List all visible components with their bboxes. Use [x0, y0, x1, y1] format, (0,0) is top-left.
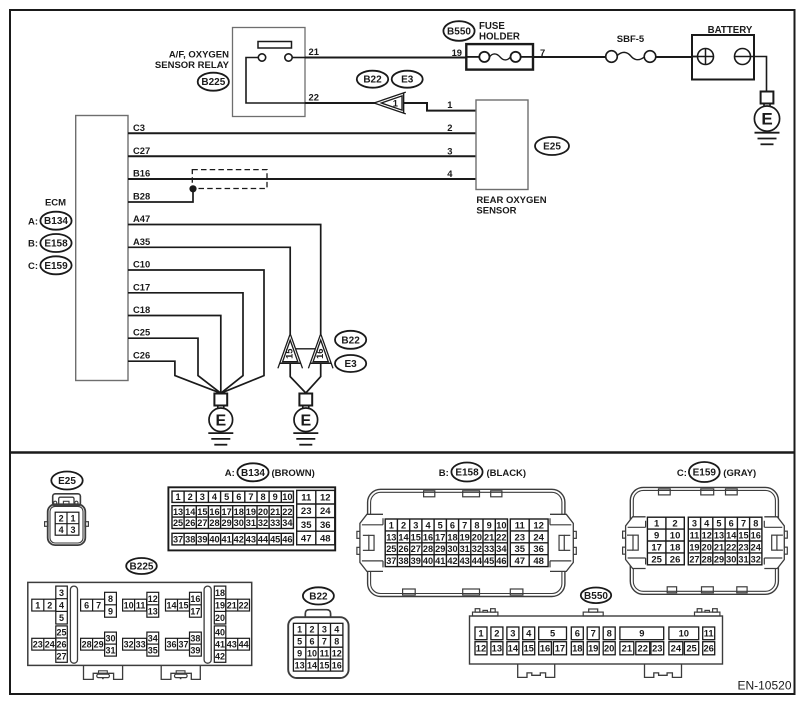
- svg-text:15: 15: [319, 661, 329, 671]
- fuse SBF-5: [606, 51, 656, 63]
- svg-text:A:: A:: [28, 216, 38, 227]
- svg-text:3: 3: [70, 525, 75, 535]
- svg-text:4: 4: [59, 600, 64, 610]
- B225 divider bar 2: [204, 586, 211, 663]
- svg-text:16: 16: [190, 594, 200, 604]
- svg-text:46: 46: [282, 535, 292, 545]
- svg-text:2: 2: [59, 513, 64, 523]
- svg-text:32: 32: [751, 554, 761, 564]
- svg-text:A/F, OXYGEN: A/F, OXYGEN: [169, 50, 229, 61]
- svg-text:19: 19: [452, 47, 462, 58]
- wire B16: ECM to rear oxygen sensor: [128, 178, 476, 180]
- svg-text:8: 8: [334, 637, 339, 647]
- svg-text:E158: E158: [44, 239, 68, 250]
- svg-text:C27: C27: [133, 145, 150, 156]
- svg-text:1: 1: [393, 98, 398, 109]
- svg-text:1: 1: [70, 513, 75, 523]
- svg-text:E159: E159: [693, 468, 717, 479]
- svg-text:1: 1: [478, 628, 483, 639]
- svg-text:24: 24: [751, 542, 762, 552]
- svg-text:E158: E158: [455, 468, 479, 479]
- B225 pins 10-11: [123, 599, 147, 611]
- wire A47: ECM to triangle 16: [128, 225, 321, 335]
- connector B225 body: [28, 582, 252, 665]
- svg-text:26: 26: [185, 518, 195, 528]
- wire C18: ECM to ground: [128, 316, 221, 394]
- svg-text:6: 6: [729, 519, 734, 529]
- shield junction dot: [189, 185, 196, 192]
- svg-text:14: 14: [508, 643, 519, 654]
- B225 pins 21-22: [226, 599, 250, 611]
- svg-text:43: 43: [460, 556, 470, 566]
- svg-text:13: 13: [173, 507, 183, 517]
- B225 pins 3-5 strip: [56, 586, 68, 624]
- svg-text:B16: B16: [133, 168, 150, 179]
- svg-text:27: 27: [197, 518, 207, 528]
- fuse holder B550: [466, 44, 533, 70]
- connector oval E159 (bottom): [689, 462, 720, 482]
- svg-text:28: 28: [82, 640, 92, 650]
- svg-text:36: 36: [166, 640, 176, 650]
- svg-text:34: 34: [496, 544, 507, 554]
- svg-text:21: 21: [622, 643, 632, 654]
- svg-text:11: 11: [690, 530, 700, 540]
- B225 pins 38-39 strip: [190, 632, 202, 656]
- wire C26: ECM to ground: [128, 361, 221, 393]
- B134 pin rows 13-22 / 25-34: [172, 506, 293, 529]
- svg-text:3: 3: [413, 520, 418, 530]
- connector triangle 16 (B22-E3): [308, 334, 333, 369]
- B225 mounting bracket 2: [161, 665, 200, 679]
- svg-text:24: 24: [45, 640, 55, 650]
- svg-text:25: 25: [173, 518, 183, 528]
- svg-text:13: 13: [492, 643, 502, 654]
- svg-text:35: 35: [301, 520, 312, 531]
- svg-text:25: 25: [651, 554, 662, 565]
- svg-text:B225: B225: [201, 77, 225, 88]
- svg-text:13: 13: [386, 532, 396, 542]
- svg-text:18: 18: [234, 507, 244, 517]
- svg-text:FUSE: FUSE: [479, 21, 505, 32]
- svg-text:8: 8: [607, 628, 612, 639]
- svg-text:E25: E25: [543, 142, 561, 153]
- svg-text:45: 45: [484, 556, 494, 566]
- svg-text:16: 16: [209, 507, 219, 517]
- connector oval B22 (bottom): [303, 587, 334, 604]
- svg-text:8: 8: [474, 520, 479, 530]
- connector triangle 15 (B22-E3): [278, 334, 303, 369]
- svg-text:6: 6: [84, 601, 89, 611]
- svg-text:7: 7: [741, 519, 746, 529]
- svg-text:10: 10: [282, 492, 292, 502]
- svg-text:40: 40: [215, 627, 225, 637]
- svg-text:22: 22: [239, 601, 249, 611]
- svg-text:5: 5: [550, 628, 555, 639]
- wire C27: ECM to rear oxygen sensor: [128, 155, 476, 157]
- B134 pin row 1-10: [172, 491, 293, 502]
- svg-text:15: 15: [197, 507, 207, 517]
- svg-text:43: 43: [246, 535, 256, 545]
- svg-text:13: 13: [714, 530, 724, 540]
- svg-text:18: 18: [572, 643, 582, 654]
- svg-text:B28: B28: [133, 191, 150, 202]
- svg-text:2: 2: [672, 519, 677, 530]
- svg-text:E: E: [215, 413, 226, 430]
- svg-text:C:: C:: [677, 468, 687, 479]
- svg-text:9: 9: [487, 520, 492, 530]
- svg-text:A:: A:: [225, 468, 235, 479]
- svg-text:9: 9: [297, 649, 302, 659]
- svg-text:2: 2: [401, 520, 406, 530]
- B225 mounting bracket 1: [84, 665, 123, 679]
- svg-text:SENSOR RELAY: SENSOR RELAY: [155, 60, 230, 71]
- ground E (oxygen sensor heater): [293, 394, 318, 445]
- svg-text:6: 6: [575, 628, 580, 639]
- svg-text:8: 8: [108, 594, 113, 604]
- connector B22 body: [288, 610, 348, 678]
- connector E158 body: [368, 489, 565, 596]
- svg-text:16: 16: [315, 349, 325, 359]
- svg-text:14: 14: [398, 532, 409, 542]
- wire: triangle 16 to ground: [306, 363, 321, 393]
- wire: battery to ground E: [751, 57, 767, 92]
- svg-text:16: 16: [751, 530, 761, 540]
- svg-text:11: 11: [320, 649, 330, 659]
- svg-text:22: 22: [496, 532, 506, 542]
- svg-text:26: 26: [398, 544, 408, 554]
- svg-text:14: 14: [307, 661, 317, 671]
- svg-text:4: 4: [334, 625, 339, 635]
- B225 divider bar 1: [70, 586, 77, 663]
- svg-text:40: 40: [423, 556, 433, 566]
- svg-text:25: 25: [386, 544, 396, 554]
- svg-text:12: 12: [702, 530, 712, 540]
- svg-text:19: 19: [246, 507, 256, 517]
- B134 pin row 37-46: [172, 533, 293, 545]
- svg-text:24: 24: [320, 506, 331, 517]
- svg-text:44: 44: [258, 535, 269, 545]
- svg-text:10: 10: [670, 530, 681, 541]
- svg-text:C26: C26: [133, 350, 150, 361]
- svg-text:2: 2: [447, 122, 452, 133]
- svg-text:27: 27: [689, 554, 699, 564]
- svg-text:2: 2: [47, 601, 52, 611]
- svg-text:B225: B225: [130, 562, 154, 573]
- svg-text:22: 22: [309, 92, 319, 103]
- svg-text:HOLDER: HOLDER: [479, 32, 520, 43]
- svg-text:18: 18: [447, 532, 457, 542]
- svg-text:20: 20: [604, 643, 614, 654]
- svg-text:19: 19: [588, 643, 598, 654]
- svg-text:3: 3: [447, 145, 452, 156]
- B134 pin block 11-48 right: [297, 490, 335, 544]
- svg-text:14: 14: [726, 530, 737, 540]
- svg-text:4: 4: [59, 525, 64, 535]
- svg-text:B550: B550: [584, 591, 608, 602]
- svg-text:B22: B22: [363, 75, 382, 86]
- svg-text:16: 16: [423, 532, 433, 542]
- connector oval E158 (bottom): [451, 463, 482, 482]
- relay B225 (A/F, Oxygen Sensor Relay): [233, 28, 306, 117]
- svg-text:25: 25: [57, 627, 67, 637]
- B225 pins 36-37: [166, 638, 190, 650]
- svg-text:1: 1: [654, 519, 660, 530]
- svg-text:30: 30: [447, 544, 457, 554]
- svg-text:10: 10: [124, 601, 134, 611]
- connector oval B134 (ECM A): [40, 212, 71, 230]
- svg-text:41: 41: [222, 535, 232, 545]
- svg-text:16: 16: [540, 643, 550, 654]
- svg-text:13: 13: [295, 661, 305, 671]
- svg-text:7: 7: [96, 601, 101, 611]
- svg-text:C17: C17: [133, 281, 150, 292]
- B225 pins 28-29: [81, 638, 105, 650]
- connector B550 body: [470, 616, 723, 664]
- label REAR OXYGEN SENSOR: [476, 195, 546, 217]
- svg-text:42: 42: [215, 652, 225, 662]
- label A/F, OXYGEN SENSOR RELAY: [155, 50, 230, 72]
- svg-text:6: 6: [309, 637, 314, 647]
- svg-text:43: 43: [227, 640, 237, 650]
- svg-text:12: 12: [533, 520, 544, 531]
- svg-text:E25: E25: [58, 476, 76, 487]
- B22 pin grid 1-16: [293, 623, 343, 671]
- svg-text:34: 34: [148, 634, 158, 644]
- svg-text:E: E: [300, 413, 311, 430]
- svg-text:9: 9: [108, 606, 113, 616]
- E159 left lock bracket: [623, 517, 646, 569]
- svg-text:28: 28: [209, 518, 219, 528]
- svg-text:C:: C:: [28, 261, 38, 272]
- svg-text:46: 46: [496, 556, 506, 566]
- svg-text:28: 28: [702, 554, 712, 564]
- svg-text:23: 23: [301, 506, 312, 517]
- wire C25: ECM to ground: [128, 338, 221, 393]
- ground E (battery): [754, 92, 779, 145]
- svg-text:33: 33: [136, 640, 146, 650]
- svg-text:A35: A35: [133, 236, 150, 247]
- svg-text:E159: E159: [44, 261, 68, 272]
- svg-text:2: 2: [188, 492, 193, 502]
- E158 pin block 11-48: [510, 519, 548, 567]
- svg-text:14: 14: [185, 507, 196, 517]
- svg-text:10: 10: [496, 520, 506, 530]
- svg-text:20: 20: [702, 542, 712, 552]
- svg-text:37: 37: [173, 535, 183, 545]
- svg-text:E: E: [761, 109, 772, 128]
- B550 pin row bottom 12-26: [475, 642, 715, 655]
- svg-text:35: 35: [514, 544, 525, 555]
- svg-text:16: 16: [332, 661, 342, 671]
- B225 pins 32-33: [123, 638, 147, 650]
- E158 pin block 1-46: [385, 519, 507, 567]
- svg-text:3: 3: [692, 519, 697, 529]
- wire: fuse holder pin 7 to SBF-5: [534, 56, 607, 58]
- B225 pins 8-9 strip: [105, 592, 117, 617]
- svg-text:37: 37: [386, 556, 396, 566]
- svg-text:22: 22: [282, 507, 292, 517]
- svg-text:32: 32: [124, 640, 134, 650]
- wire C17: ECM to ground: [128, 293, 243, 393]
- svg-text:8: 8: [260, 492, 265, 502]
- svg-text:31: 31: [738, 554, 748, 564]
- svg-text:3: 3: [59, 588, 64, 598]
- wire: SBF-5 to battery: [656, 56, 692, 58]
- svg-text:7: 7: [591, 628, 596, 639]
- svg-text:1: 1: [447, 99, 452, 110]
- svg-text:2: 2: [309, 625, 314, 635]
- svg-text:20: 20: [258, 507, 268, 517]
- B550 mounting bracket 1: [518, 664, 555, 677]
- svg-text:7: 7: [248, 492, 253, 502]
- svg-text:B:: B:: [439, 468, 449, 479]
- svg-text:26: 26: [703, 643, 713, 654]
- connector oval E3 (mid): [335, 355, 366, 372]
- svg-text:B550: B550: [447, 27, 471, 38]
- connector oval E25 (bottom): [51, 472, 82, 490]
- connector triangle 1 (B22-E3): [374, 92, 406, 114]
- svg-text:34: 34: [282, 518, 293, 528]
- svg-text:11: 11: [704, 628, 714, 639]
- svg-text:29: 29: [435, 544, 445, 554]
- svg-text:11: 11: [136, 601, 146, 611]
- svg-text:9: 9: [273, 492, 278, 502]
- svg-text:22: 22: [638, 643, 648, 654]
- svg-text:E3: E3: [401, 75, 414, 86]
- svg-text:42: 42: [234, 535, 244, 545]
- B225 pins 40-42 strip: [214, 626, 226, 662]
- svg-text:15: 15: [284, 349, 294, 359]
- svg-text:13: 13: [148, 606, 158, 616]
- svg-text:27: 27: [57, 652, 67, 662]
- svg-text:B134: B134: [241, 468, 265, 479]
- svg-text:5: 5: [59, 613, 64, 623]
- connector oval E3 (top): [392, 71, 423, 88]
- E159 pin block 1-26: [647, 517, 684, 565]
- svg-text:29: 29: [714, 554, 724, 564]
- rear oxygen sensor box: [476, 100, 528, 190]
- connector oval B550 (bottom): [581, 588, 611, 604]
- svg-text:47: 47: [301, 533, 312, 544]
- svg-text:15: 15: [738, 530, 748, 540]
- svg-text:21: 21: [309, 46, 319, 57]
- shield dashed box around B16 wire: [192, 170, 267, 189]
- svg-text:B:: B:: [28, 239, 38, 250]
- svg-text:9: 9: [639, 628, 644, 639]
- svg-text:35: 35: [148, 646, 158, 656]
- svg-text:48: 48: [533, 556, 544, 567]
- svg-text:41: 41: [435, 556, 445, 566]
- B225 pins 23-24: [32, 638, 56, 650]
- E25 pin grid (2 1 / 4 3): [55, 512, 79, 535]
- connector oval E158 (ECM B): [40, 234, 71, 252]
- svg-text:30: 30: [726, 554, 736, 564]
- svg-text:15: 15: [523, 643, 533, 654]
- svg-text:C25: C25: [133, 327, 150, 338]
- B550 top tab middle: [583, 609, 603, 616]
- svg-text:17: 17: [651, 542, 662, 553]
- svg-text:C18: C18: [133, 304, 150, 315]
- svg-text:12: 12: [148, 594, 158, 604]
- svg-text:A47: A47: [133, 213, 150, 224]
- B225 pins 14-15: [166, 599, 190, 611]
- connector B134 body: [168, 487, 335, 550]
- svg-text:SBF-5: SBF-5: [617, 34, 645, 45]
- E158 right lock bracket: [550, 514, 576, 571]
- connector oval B134 (bottom): [237, 463, 268, 481]
- B225 pins 34-35 strip: [147, 632, 159, 656]
- wire C3: ECM to rear oxygen sensor: [128, 132, 476, 134]
- svg-text:3: 3: [322, 625, 327, 635]
- B225 pins 30-31 strip: [105, 632, 117, 656]
- svg-text:26: 26: [57, 639, 67, 649]
- svg-text:4: 4: [526, 628, 532, 639]
- svg-text:17: 17: [555, 643, 565, 654]
- B550 pin row top 1-11: [475, 627, 715, 640]
- label FUSE HOLDER: [479, 21, 520, 43]
- svg-text:45: 45: [270, 535, 280, 545]
- svg-text:22: 22: [726, 542, 736, 552]
- svg-text:47: 47: [514, 556, 525, 567]
- svg-text:B22: B22: [309, 591, 328, 602]
- wire B28: ECM to shield junction: [128, 190, 193, 203]
- svg-text:48: 48: [320, 533, 331, 544]
- connector oval B22 (top): [357, 71, 388, 88]
- svg-text:12: 12: [332, 649, 342, 659]
- svg-text:44: 44: [472, 556, 483, 566]
- connector oval B225: [198, 73, 229, 91]
- svg-text:C3: C3: [133, 122, 145, 133]
- svg-text:1: 1: [176, 492, 181, 502]
- svg-text:39: 39: [197, 535, 207, 545]
- svg-text:11: 11: [515, 520, 526, 531]
- svg-text:19: 19: [460, 532, 470, 542]
- svg-text:B22: B22: [341, 335, 360, 346]
- svg-text:1: 1: [297, 625, 302, 635]
- svg-text:E3: E3: [344, 359, 357, 370]
- svg-text:20: 20: [472, 532, 482, 542]
- connector oval B22 (mid): [335, 331, 366, 349]
- B550 top tab right: [695, 609, 720, 616]
- svg-text:(BROWN): (BROWN): [272, 468, 315, 479]
- svg-text:(BLACK): (BLACK): [487, 468, 527, 479]
- ECM box: [76, 116, 128, 381]
- svg-text:23: 23: [738, 542, 748, 552]
- wire: relay pin 21 to fuse holder pin 19: [305, 57, 467, 59]
- battery: [692, 35, 754, 80]
- svg-text:17: 17: [190, 606, 200, 616]
- svg-text:18: 18: [215, 588, 225, 598]
- svg-text:31: 31: [460, 544, 470, 554]
- svg-text:1: 1: [35, 601, 40, 611]
- wire A35: ECM to triangle 15: [128, 247, 290, 334]
- svg-text:BATTERY: BATTERY: [708, 25, 753, 36]
- svg-text:12: 12: [320, 493, 331, 504]
- B225 pins 18-20 strip: [214, 586, 226, 624]
- connector oval E159 (ECM C): [40, 256, 71, 274]
- svg-text:39: 39: [190, 646, 200, 656]
- svg-text:15: 15: [411, 532, 421, 542]
- svg-text:6: 6: [450, 520, 455, 530]
- svg-text:31: 31: [246, 518, 256, 528]
- svg-text:33: 33: [270, 518, 280, 528]
- B550 top tab left: [473, 609, 498, 616]
- svg-text:5: 5: [297, 637, 302, 647]
- B225 pins 16-17 strip: [190, 592, 202, 617]
- svg-text:23: 23: [652, 643, 662, 654]
- svg-text:10: 10: [679, 628, 689, 639]
- svg-text:1: 1: [389, 520, 394, 530]
